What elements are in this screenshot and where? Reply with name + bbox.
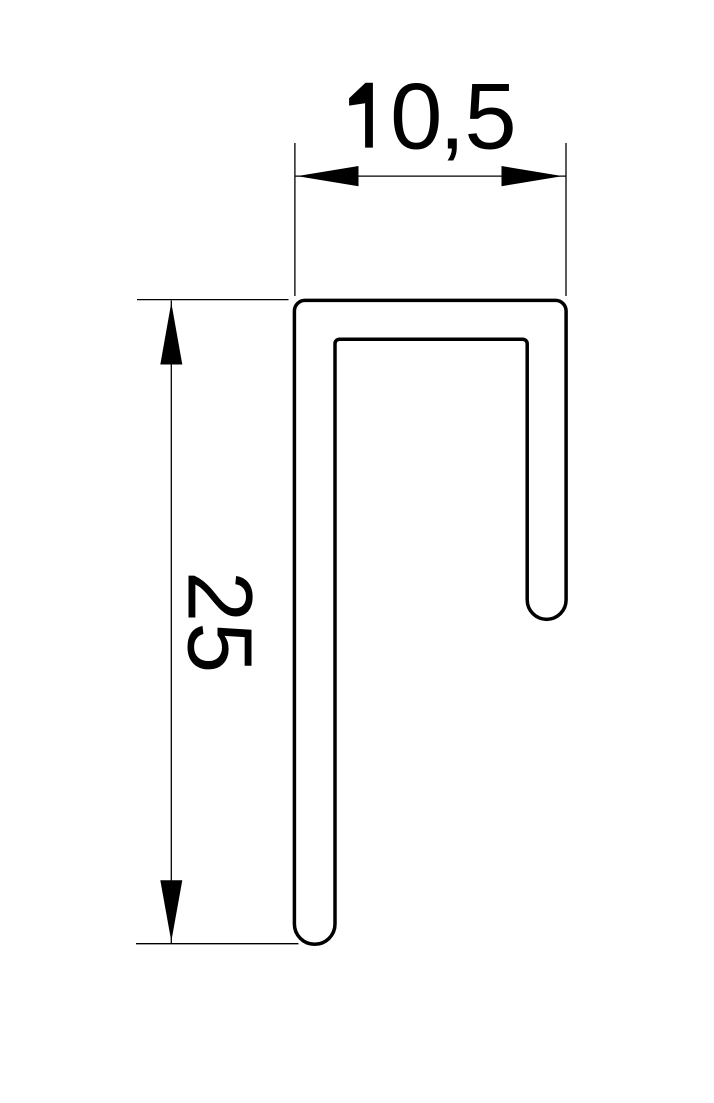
svg-text:0: 0	[390, 64, 442, 169]
svg-text:25: 25	[168, 571, 270, 673]
svg-text:5: 5	[464, 64, 516, 169]
svg-text:,: ,	[439, 64, 465, 169]
